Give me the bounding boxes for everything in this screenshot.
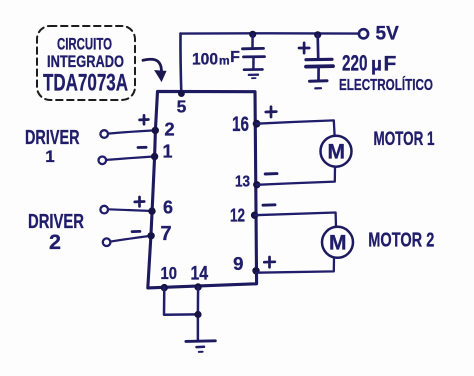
svg-text:CIRCUITO: CIRCUITO xyxy=(57,35,112,53)
svg-text:16: 16 xyxy=(232,113,249,136)
pin 10 xyxy=(160,263,177,291)
svg-text:100mF: 100mF xyxy=(192,49,240,69)
wire pin5 to 5V rail xyxy=(179,34,182,93)
svg-text:7: 7 xyxy=(160,223,171,245)
wire motor M1 bottom to pin 13 xyxy=(257,167,335,185)
svg-text:MOTOR 1: MOTOR 1 xyxy=(374,129,435,150)
ground below C2 xyxy=(310,81,328,89)
wire driver1 plus to pin 2 xyxy=(108,131,152,134)
label DRIVER 1 xyxy=(25,127,80,166)
wire driver2 plus to pin 6 xyxy=(108,209,149,211)
plus sign pin 9 xyxy=(264,257,275,267)
svg-text:M: M xyxy=(328,141,346,164)
arrow from label box to IC xyxy=(143,59,166,81)
ground below C1 xyxy=(244,69,263,78)
pin 14 xyxy=(190,263,208,290)
label box CIRCUITO INTEGRADO TDA7073A xyxy=(37,26,135,100)
motor M1 xyxy=(321,136,352,167)
minus sign pin 7 xyxy=(132,230,140,233)
pin 2 xyxy=(152,118,175,139)
wire pin 10 to ground junction xyxy=(164,288,198,315)
svg-text:9: 9 xyxy=(233,253,243,274)
svg-text:1: 1 xyxy=(45,147,54,166)
junction node C2 on rail xyxy=(314,31,321,38)
+5V rail wire xyxy=(181,32,359,35)
svg-text:DRIVER: DRIVER xyxy=(25,127,80,149)
svg-text:MOTOR 2: MOTOR 2 xyxy=(368,230,434,252)
junction node pins 10-14 xyxy=(194,311,201,318)
svg-text:13: 13 xyxy=(235,174,250,191)
svg-text:2: 2 xyxy=(164,118,174,139)
svg-text:6: 6 xyxy=(163,197,173,217)
minus sign pin 13 xyxy=(265,172,277,175)
svg-text:220µF: 220µF xyxy=(342,50,396,75)
svg-text:5V: 5V xyxy=(376,23,400,44)
wire motor M2 bottom to pin 9 xyxy=(256,258,334,273)
junction node C1 on rail xyxy=(249,31,256,38)
terminal driver1 plus xyxy=(100,130,108,138)
plus sign pin 6 xyxy=(135,197,144,206)
pin 7 xyxy=(147,223,171,245)
svg-text:2: 2 xyxy=(49,230,61,254)
minus sign pin 12 xyxy=(263,203,275,206)
svg-text:M: M xyxy=(329,232,347,255)
svg-text:12: 12 xyxy=(230,205,245,226)
svg-text:TDA7073A: TDA7073A xyxy=(43,70,128,97)
pin 6 xyxy=(148,197,173,217)
pin 5 xyxy=(177,90,187,116)
svg-text:INTEGRADO: INTEGRADO xyxy=(47,53,124,71)
wire driver1 minus to pin 1 xyxy=(106,157,151,160)
svg-text:1: 1 xyxy=(162,142,172,162)
plus sign pin 2 xyxy=(140,115,149,124)
wire pin 16 to motor M1 top xyxy=(257,120,335,135)
label DRIVER 2 xyxy=(28,211,84,254)
pin 12 xyxy=(230,205,258,226)
pin 9 xyxy=(233,253,260,274)
pin 16 xyxy=(232,113,261,136)
svg-text:ELECTROLÍTICO: ELECTROLÍTICO xyxy=(339,75,433,94)
capacitor C1 100nF xyxy=(243,34,265,69)
wire pin 14 down to ground xyxy=(197,287,200,340)
svg-text:10: 10 xyxy=(160,263,177,283)
wire driver2 minus to pin 7 xyxy=(111,236,149,242)
terminal driver1 minus xyxy=(99,157,107,165)
motor M2 xyxy=(322,227,353,258)
svg-text:14: 14 xyxy=(190,263,208,284)
minus sign pin 1 xyxy=(138,146,146,149)
ground symbol main xyxy=(186,341,215,352)
terminal driver2 minus xyxy=(103,238,111,246)
5V terminal xyxy=(359,23,399,44)
svg-text:5: 5 xyxy=(177,96,187,116)
wire pin 12 to motor M2 top xyxy=(255,213,336,227)
capacitor C2 220uF electrolytic xyxy=(299,35,333,81)
IC U1 TDA7073A body xyxy=(148,91,257,288)
plus sign pin 16 xyxy=(266,107,277,117)
terminal driver2 plus xyxy=(100,206,108,214)
pin 13 xyxy=(235,174,261,191)
pin 1 xyxy=(151,142,173,162)
